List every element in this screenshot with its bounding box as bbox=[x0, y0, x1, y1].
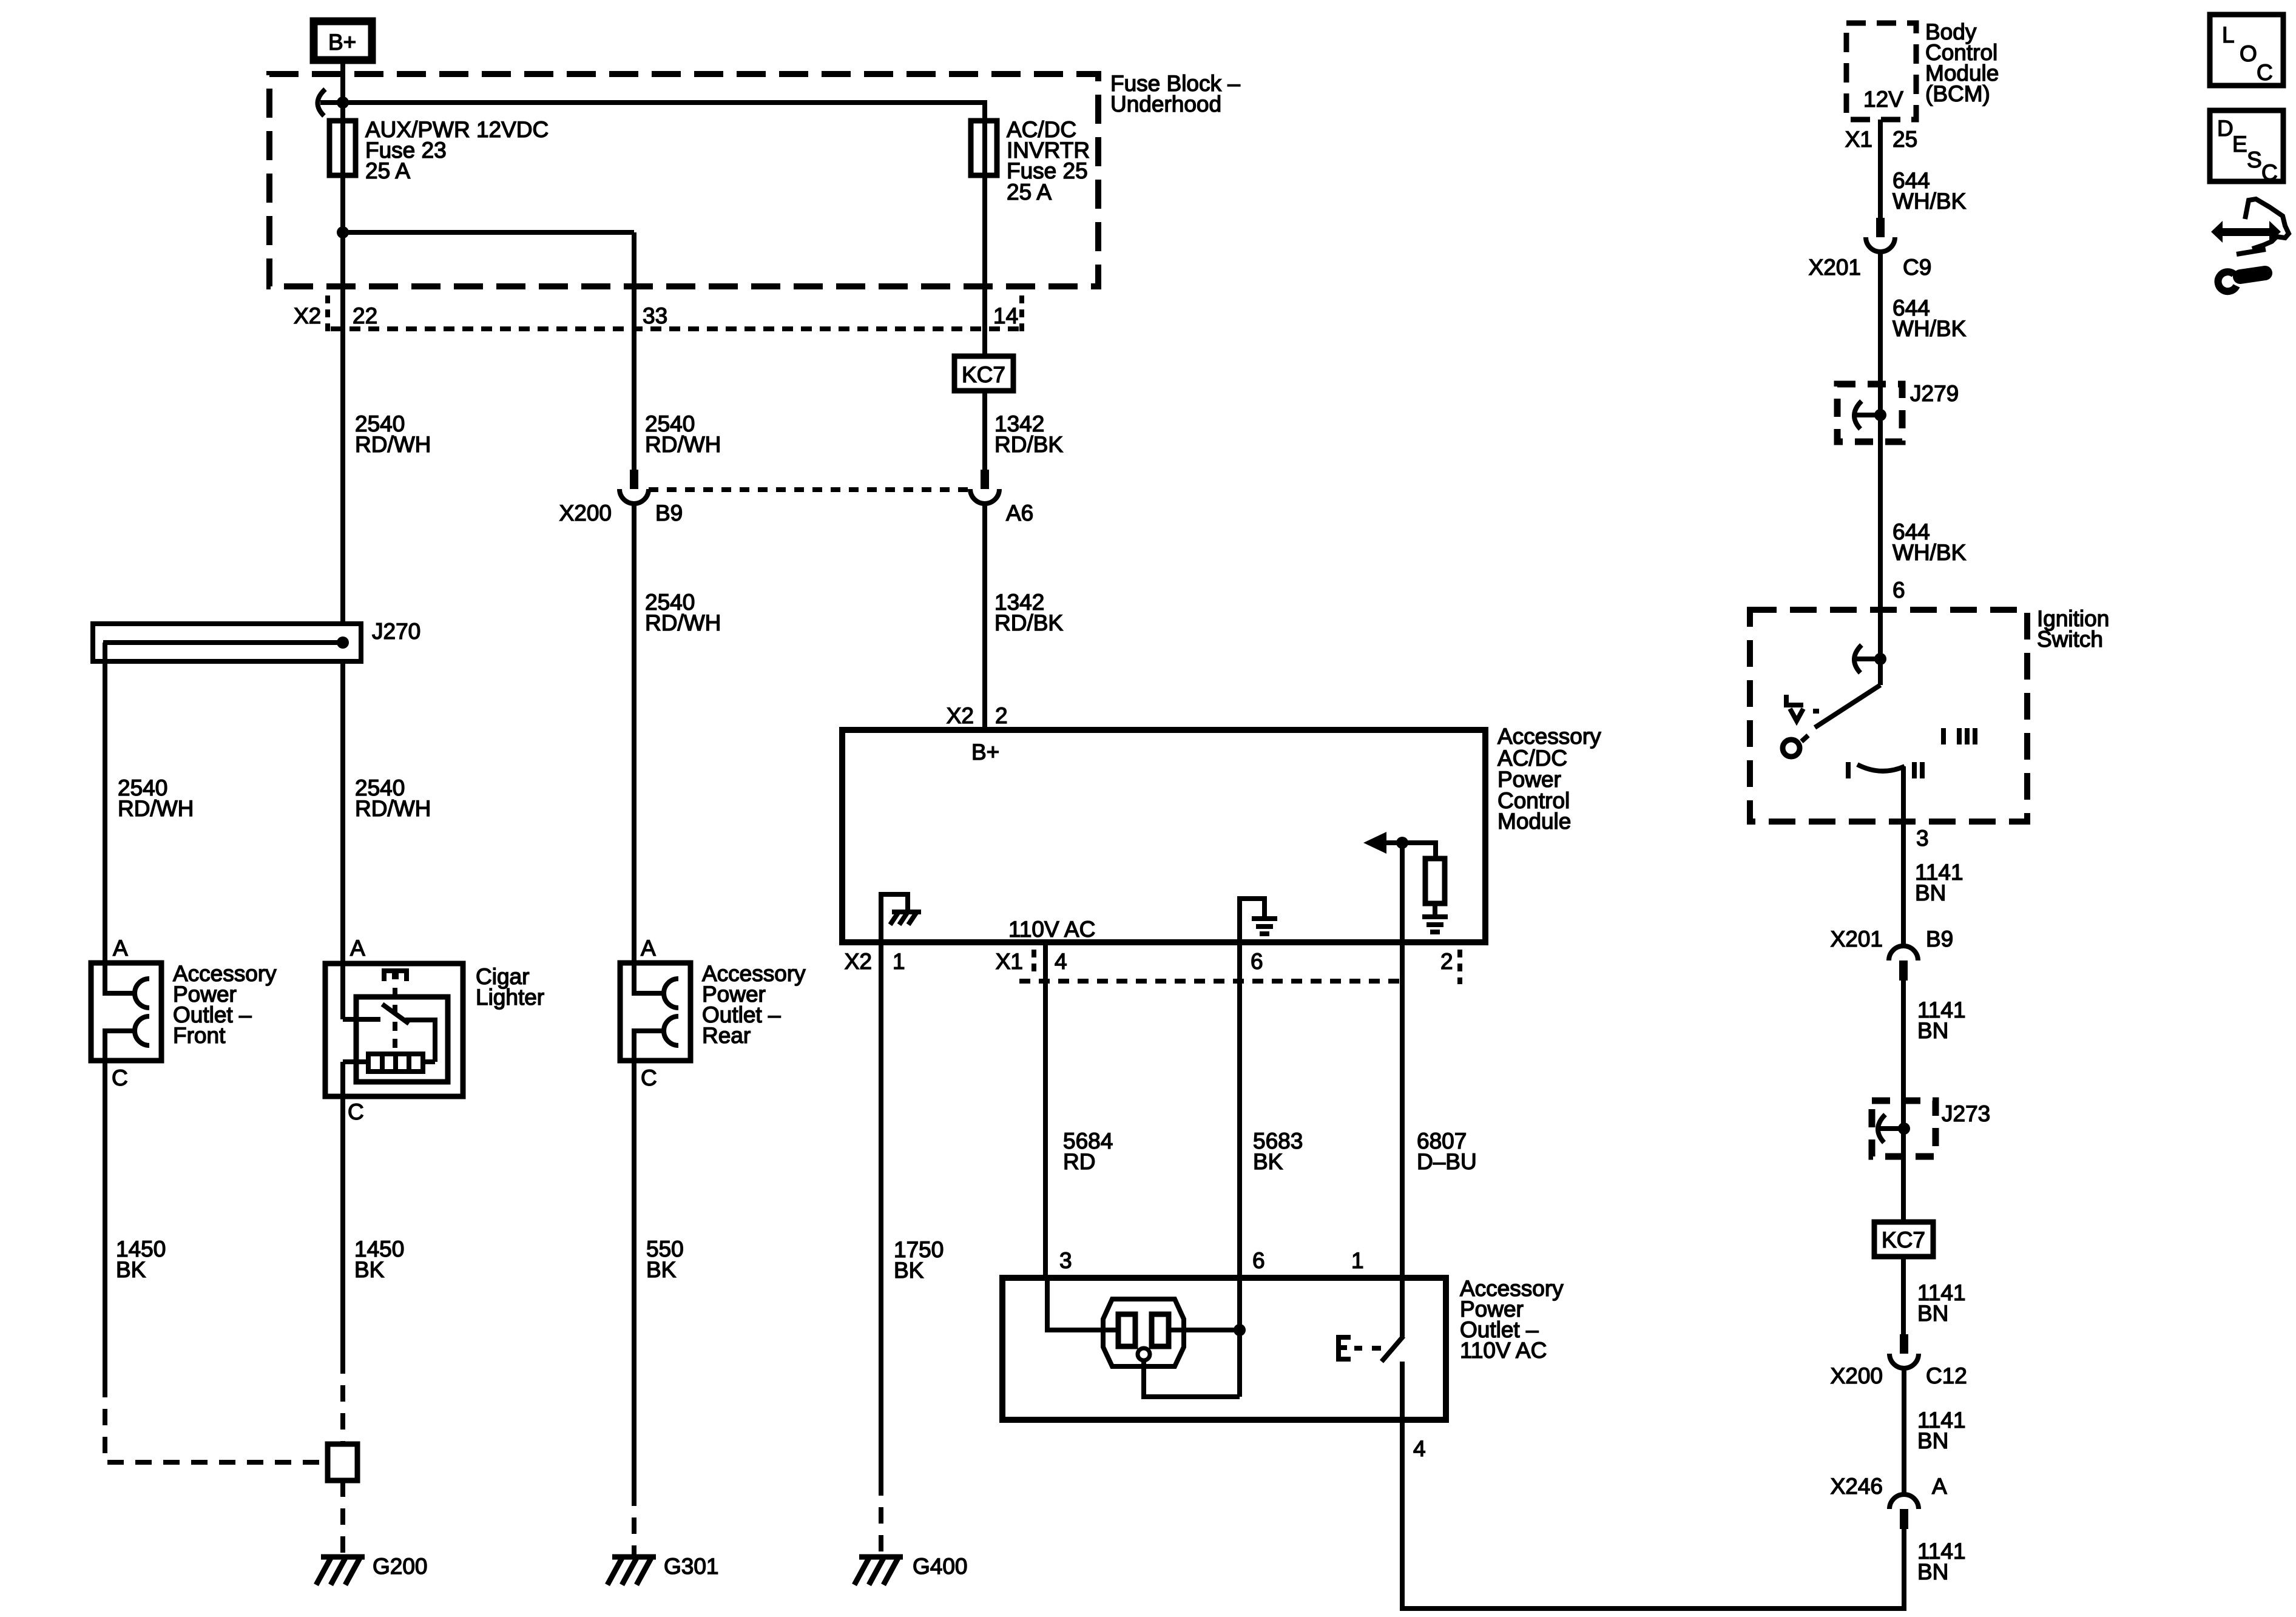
svg-text:WH/BK: WH/BK bbox=[1893, 189, 1967, 214]
svg-text:D: D bbox=[2217, 116, 2234, 141]
svg-text:BK: BK bbox=[894, 1258, 924, 1283]
svg-text:D–BU: D–BU bbox=[1417, 1149, 1477, 1174]
svg-text:X200: X200 bbox=[1831, 1363, 1883, 1388]
svg-text:A: A bbox=[641, 936, 656, 960]
svg-text:X201: X201 bbox=[1831, 927, 1883, 951]
svg-text:KC7: KC7 bbox=[1882, 1227, 1925, 1252]
svg-text:C: C bbox=[2261, 160, 2278, 185]
svg-text:25 A: 25 A bbox=[1007, 180, 1052, 204]
svg-text:C12: C12 bbox=[1926, 1363, 1967, 1388]
svg-text:X1: X1 bbox=[996, 949, 1023, 974]
svg-text:BN: BN bbox=[1915, 880, 1946, 905]
svg-text:G200: G200 bbox=[373, 1554, 428, 1579]
svg-text:(BCM): (BCM) bbox=[1925, 81, 1990, 106]
svg-text:Rear: Rear bbox=[702, 1023, 751, 1048]
svg-text:B9: B9 bbox=[1926, 927, 1953, 951]
svg-text:2: 2 bbox=[995, 703, 1008, 728]
svg-text:BK: BK bbox=[1253, 1149, 1283, 1174]
svg-text:110V AC: 110V AC bbox=[1460, 1338, 1547, 1363]
svg-text:BK: BK bbox=[116, 1257, 146, 1282]
svg-text:6: 6 bbox=[1252, 1248, 1265, 1273]
svg-text:4: 4 bbox=[1413, 1436, 1426, 1461]
svg-text:G400: G400 bbox=[913, 1554, 968, 1579]
svg-text:BN: BN bbox=[1917, 1428, 1948, 1453]
svg-text:Underhood: Underhood bbox=[1110, 92, 1221, 116]
svg-text:X1: X1 bbox=[1845, 127, 1872, 152]
svg-text:33: 33 bbox=[643, 303, 667, 328]
svg-text:X246: X246 bbox=[1831, 1474, 1883, 1499]
svg-text:Front: Front bbox=[173, 1023, 226, 1048]
svg-text:KC7: KC7 bbox=[962, 362, 1005, 387]
svg-text:25: 25 bbox=[1893, 127, 1917, 152]
svg-text:A: A bbox=[113, 936, 128, 960]
svg-text:J270: J270 bbox=[372, 619, 420, 644]
svg-text:X201: X201 bbox=[1809, 255, 1861, 280]
svg-text:G301: G301 bbox=[664, 1554, 719, 1579]
svg-text:X200: X200 bbox=[559, 501, 612, 525]
svg-text:1: 1 bbox=[893, 949, 905, 974]
svg-text:BN: BN bbox=[1917, 1301, 1948, 1326]
svg-text:6: 6 bbox=[1893, 578, 1905, 603]
svg-text:X2: X2 bbox=[294, 303, 321, 328]
svg-text:12V: 12V bbox=[1863, 87, 1903, 112]
svg-text:WH/BK: WH/BK bbox=[1893, 540, 1967, 565]
svg-text:A: A bbox=[1932, 1474, 1947, 1499]
svg-text:A6: A6 bbox=[1006, 501, 1033, 525]
svg-text:C: C bbox=[2257, 60, 2273, 85]
svg-text:RD/WH: RD/WH bbox=[355, 432, 431, 457]
svg-text:25 A: 25 A bbox=[365, 158, 410, 183]
svg-text:X2: X2 bbox=[947, 703, 974, 728]
svg-text:RD/WH: RD/WH bbox=[645, 432, 721, 457]
svg-text:4: 4 bbox=[1055, 949, 1067, 974]
svg-text:3: 3 bbox=[1916, 826, 1929, 851]
svg-text:RD/WH: RD/WH bbox=[118, 796, 194, 821]
svg-text:C: C bbox=[112, 1065, 128, 1090]
svg-text:L: L bbox=[2222, 22, 2235, 47]
svg-text:110V AC: 110V AC bbox=[1008, 917, 1095, 942]
svg-text:RD: RD bbox=[1063, 1149, 1095, 1174]
svg-text:BN: BN bbox=[1917, 1018, 1948, 1043]
svg-text:B+: B+ bbox=[971, 740, 999, 765]
svg-text:J279: J279 bbox=[1910, 381, 1959, 406]
svg-text:Switch: Switch bbox=[2037, 627, 2103, 652]
svg-text:E: E bbox=[2232, 132, 2247, 157]
svg-text:Lighter: Lighter bbox=[476, 985, 544, 1010]
svg-text:Module: Module bbox=[1497, 809, 1571, 834]
svg-text:RD/WH: RD/WH bbox=[645, 610, 721, 635]
svg-text:B+: B+ bbox=[328, 30, 356, 55]
svg-text:J273: J273 bbox=[1942, 1101, 1990, 1126]
svg-text:3: 3 bbox=[1059, 1248, 1072, 1273]
svg-text:S: S bbox=[2247, 147, 2262, 172]
svg-text:A: A bbox=[350, 936, 365, 960]
svg-text:Accessory: Accessory bbox=[1497, 724, 1601, 749]
svg-text:BK: BK bbox=[646, 1257, 677, 1282]
svg-text:2: 2 bbox=[1440, 949, 1453, 974]
svg-text:RD/BK: RD/BK bbox=[994, 610, 1063, 635]
svg-text:O: O bbox=[2240, 41, 2257, 66]
svg-text:RD/BK: RD/BK bbox=[994, 432, 1063, 457]
svg-text:BN: BN bbox=[1917, 1559, 1948, 1584]
svg-text:BK: BK bbox=[354, 1257, 385, 1282]
svg-text:B9: B9 bbox=[655, 501, 683, 525]
svg-text:WH/BK: WH/BK bbox=[1893, 316, 1967, 341]
svg-text:C: C bbox=[641, 1065, 657, 1090]
svg-text:6: 6 bbox=[1251, 949, 1263, 974]
svg-text:C9: C9 bbox=[1903, 255, 1931, 280]
svg-text:RD/WH: RD/WH bbox=[355, 796, 431, 821]
svg-text:22: 22 bbox=[353, 303, 377, 328]
svg-text:14: 14 bbox=[993, 303, 1018, 328]
svg-text:C: C bbox=[348, 1099, 364, 1124]
svg-text:X2: X2 bbox=[845, 949, 872, 974]
svg-text:1: 1 bbox=[1351, 1248, 1364, 1273]
